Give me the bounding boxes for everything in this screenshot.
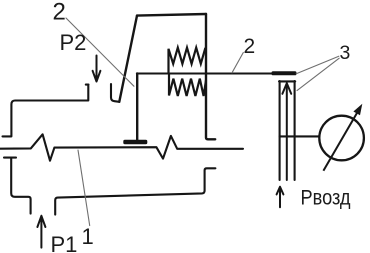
gauge needle (323, 111, 358, 171)
air supply arrow (277, 187, 284, 207)
pipe lower wall left segment with P1 tap notch (4, 158, 31, 214)
gauge needle arrowhead (353, 104, 362, 116)
node left nozzle port J-hook (111, 84, 119, 102)
spring housing right wall with foot (206, 14, 215, 139)
leader for label 3 lower (297, 58, 339, 90)
wire: upper-left pipe wall with left flange foot (3, 85, 89, 137)
pipe upper wall with two break symbols (0, 134, 243, 160)
tube internal flow arrowhead (282, 83, 291, 94)
spring lower (169, 74, 206, 97)
flapper stem (136, 74, 138, 140)
leader for label 2 top-left (66, 18, 134, 86)
svg-text:2: 2 (53, 0, 66, 26)
lever arm slanted leg (119, 16, 137, 102)
svg-text:P1: P1 (51, 232, 78, 253)
leader for label 3 upper (296, 56, 339, 74)
leader for label 1 (78, 150, 90, 226)
P2 flow arrow (93, 56, 101, 82)
svg-text:P2: P2 (60, 30, 87, 55)
svg-text:3: 3 (340, 42, 351, 64)
flapper plug thick bar (123, 140, 147, 144)
flapper arm horizontal bar (137, 73, 272, 75)
nozzle tube left wall (279, 81, 281, 180)
leader for label 2 right (232, 53, 243, 73)
gauge connector line (280, 135, 320, 137)
svg-text:2: 2 (244, 35, 256, 58)
svg-text:Рвозд: Рвозд (301, 187, 351, 210)
nozzle tube top cap (279, 80, 295, 82)
spring housing top wall (137, 14, 206, 16)
nozzle tube right wall (294, 81, 296, 180)
spring upper (169, 48, 206, 74)
nozzle seat thick bar (272, 71, 297, 75)
gauge circle (319, 116, 364, 161)
tube internal flow arrow shaft (286, 85, 288, 180)
svg-text:1: 1 (82, 224, 94, 249)
pipe lower wall right segment with right flange (55, 168, 215, 214)
P1 flow arrow (37, 216, 45, 248)
